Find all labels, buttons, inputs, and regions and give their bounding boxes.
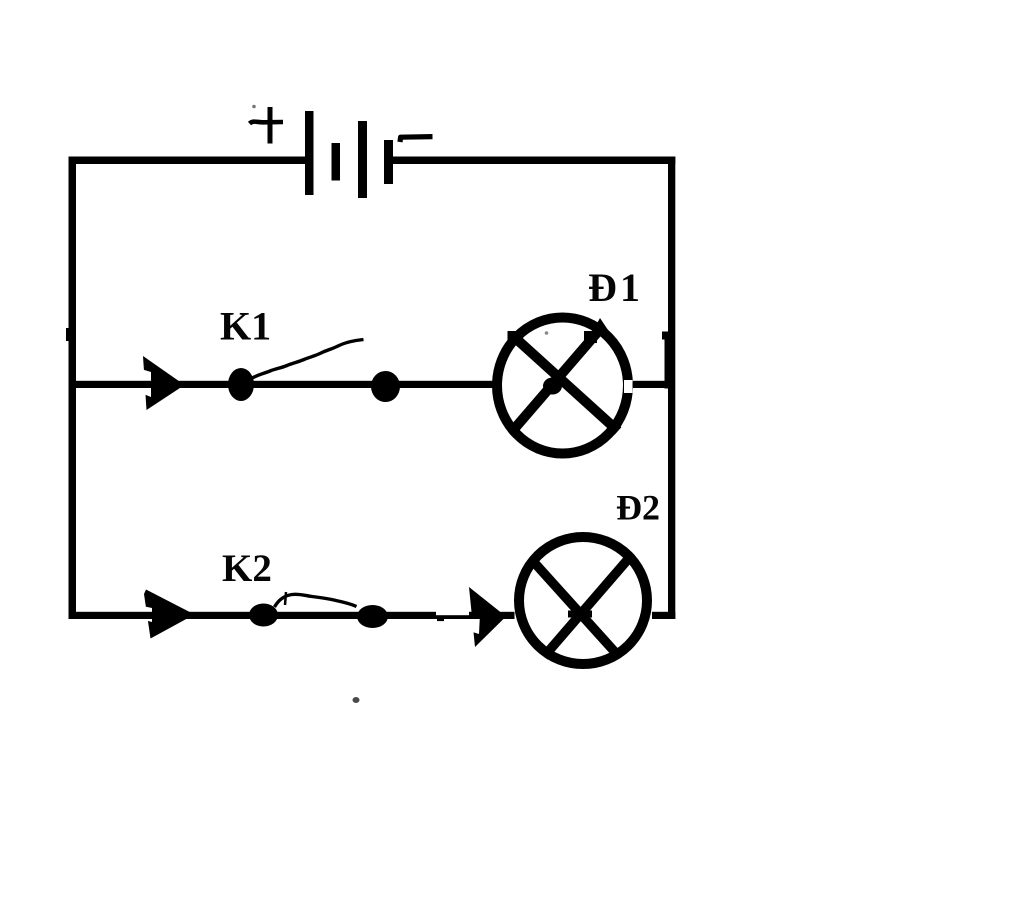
svg-text:K2: K2: [222, 547, 272, 590]
svg-text:Đ2: Đ2: [616, 488, 660, 528]
svg-text:Đ1: Đ1: [588, 265, 640, 310]
svg-text:K1: K1: [220, 304, 271, 349]
